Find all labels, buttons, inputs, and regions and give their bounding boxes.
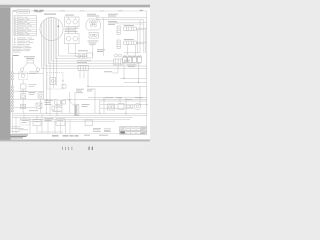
battery collector wire	[123, 53, 142, 64]
ground link wire	[13, 91, 44, 93]
starter row labels	[76, 88, 84, 91]
wire stubs to frame bottom	[42, 113, 70, 133]
alternator cluster labels	[78, 49, 88, 52]
battery down wires	[124, 62, 138, 82]
mid text block right	[97, 48, 105, 51]
horn feed wire	[13, 71, 43, 73]
lower box 2	[33, 120, 41, 126]
top toolbar shadow line	[0, 4, 150, 7]
gauge box lower	[65, 34, 80, 44]
battery labels	[127, 64, 137, 67]
starter feed hwires	[88, 97, 147, 108]
mid label	[104, 70, 112, 73]
lower box 4	[56, 119, 65, 125]
title block	[120, 127, 147, 134]
wire bundle through circle with staircase bends	[42, 23, 147, 68]
alternator text rows	[77, 59, 91, 62]
terminal block mid	[78, 65, 88, 70]
schematic border frame	[13, 11, 147, 134]
aux feeder wires	[120, 22, 147, 24]
instrument cluster labels	[87, 13, 96, 16]
text right of stamp	[34, 10, 39, 11]
sender lower unit	[21, 84, 27, 89]
bottom right verticals	[104, 86, 147, 115]
connector strip CB2	[117, 40, 120, 48]
engine connector circle	[40, 17, 63, 40]
sheet number text left of stamp	[13, 10, 16, 11]
title stamp box top margin	[17, 10, 30, 13]
left mid wires	[13, 99, 147, 114]
regulator chain	[115, 54, 118, 57]
legend table TB1	[14, 16, 37, 36]
document page	[11, 7, 151, 139]
lower-left dashed box	[20, 119, 30, 125]
fuel sender dashed box	[19, 72, 28, 80]
battery master cluster	[55, 100, 60, 104]
bottom notes rows	[12, 127, 29, 132]
flag marker inside circle	[58, 26, 60, 28]
battery bank BT1-BT4	[123, 56, 142, 63]
left terminal strip	[11, 57, 13, 112]
center connector strip	[74, 104, 79, 115]
gauge box upper	[65, 17, 80, 26]
small device on ground line	[62, 85, 66, 89]
alternator contacts	[78, 55, 81, 58]
fuse block F2	[124, 41, 136, 45]
switch drop wire	[92, 45, 94, 56]
starter relay	[108, 104, 115, 110]
starter motor	[134, 104, 140, 110]
left gray margin strip	[0, 7, 11, 139]
title block logo	[120, 131, 125, 133]
feeder wires to right edge	[96, 18, 147, 20]
legend list below table	[14, 38, 34, 45]
right lower hbuses	[112, 78, 147, 86]
right top note text	[108, 13, 118, 16]
figure caption block dark	[11, 135, 29, 139]
mid notes text block	[93, 128, 101, 131]
small box left	[21, 104, 26, 109]
viewer bottom toolbar glyphs	[61, 147, 64, 150]
lower box 3	[85, 120, 92, 126]
fuel sender labels	[29, 72, 38, 74]
hatch box	[36, 103, 42, 108]
lower text mid	[45, 117, 54, 120]
wires from gauges	[69, 26, 76, 33]
gauge labels middle	[65, 27, 79, 30]
starter aux wire	[100, 100, 147, 102]
page bottom shadow	[0, 138, 150, 141]
battery feed verticals	[137, 18, 147, 78]
ignition switch yoke	[86, 19, 101, 30]
horn labels	[24, 55, 35, 58]
main horizontal buses	[13, 113, 147, 117]
viewer background	[0, 0, 150, 150]
bottom caption center	[52, 135, 79, 136]
TB label	[13, 54, 19, 57]
connector strip CB1	[117, 26, 120, 34]
title block fine print	[141, 127, 146, 133]
fuse output wires	[136, 28, 147, 44]
junction dots	[46, 78, 147, 116]
top margin zone ticks	[60, 9, 65, 12]
switch lower contact block	[89, 33, 99, 39]
cluster drop wire	[103, 18, 105, 56]
contact circles	[127, 105, 130, 108]
left-of-title text block	[104, 129, 111, 132]
label above circle	[44, 14, 56, 15]
lower-left wire stubs	[16, 117, 37, 133]
left area components row y93-99	[21, 94, 26, 99]
solenoid box	[118, 104, 124, 110]
switch labels	[88, 40, 99, 43]
sender chain wires	[22, 80, 24, 94]
horn bracket	[20, 60, 39, 71]
fuse block F1	[124, 27, 136, 31]
bottom rail wire	[38, 131, 63, 133]
pointer diagonal	[68, 99, 75, 107]
relay box left-low	[47, 73, 63, 90]
notes text block	[13, 46, 32, 53]
bus drop wires	[24, 88, 100, 119]
